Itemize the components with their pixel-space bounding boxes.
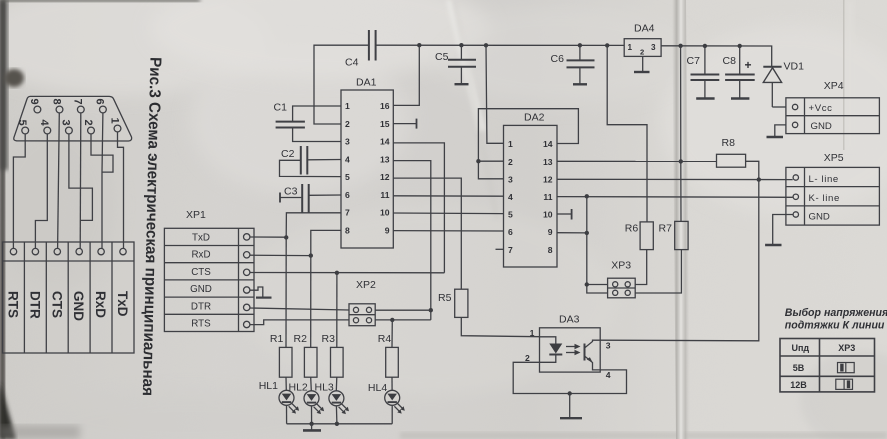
svg-text:C1: C1 <box>274 102 288 114</box>
svg-text:HL2: HL2 <box>289 381 308 393</box>
svg-text:+Vcc: +Vcc <box>809 103 833 114</box>
wire DA2 pin9 to XP3 net <box>557 231 589 235</box>
svg-text:XP3: XP3 <box>611 260 631 272</box>
DA3 bottom loop and ground <box>513 362 626 418</box>
terminal label RTS <box>6 291 21 318</box>
connector XP5 <box>786 152 880 225</box>
DB9 pin 1 <box>108 118 121 132</box>
svg-text:9: 9 <box>28 99 40 105</box>
DB9 pin 4 <box>38 120 51 134</box>
resistor R1 <box>270 237 292 377</box>
svg-text:HL3: HL3 <box>315 381 334 393</box>
svg-text:C2: C2 <box>281 148 295 160</box>
svg-text:XP4: XP4 <box>824 80 844 92</box>
svg-text:9: 9 <box>548 227 553 237</box>
svg-text:4: 4 <box>38 120 50 127</box>
wire DA1 pin8 <box>311 230 341 255</box>
svg-text:12: 12 <box>380 172 390 182</box>
DA2 pin10 stub <box>557 209 572 220</box>
svg-text:2: 2 <box>508 157 513 167</box>
svg-text:RxD: RxD <box>191 250 210 261</box>
svg-text:5В: 5В <box>793 363 805 373</box>
svg-text:7: 7 <box>72 99 84 105</box>
svg-text:1: 1 <box>530 328 535 338</box>
IC DA2 <box>504 112 558 268</box>
svg-text:R7: R7 <box>659 223 673 235</box>
resistor R3 <box>322 273 344 377</box>
capacitor C1 <box>274 102 342 142</box>
wire XP1 DTR to XP2 <box>250 308 349 310</box>
svg-text:TxD: TxD <box>115 291 130 317</box>
capacitor C6 <box>551 45 595 84</box>
resistor R8 <box>557 137 759 180</box>
note text <box>785 307 887 332</box>
svg-text:GND: GND <box>190 284 212 295</box>
svg-text:DTR: DTR <box>27 291 42 319</box>
XP5 GND ground <box>765 215 793 246</box>
svg-text:2: 2 <box>82 120 94 126</box>
capacitor C2 <box>280 146 342 177</box>
wire DB9 pin2 join <box>91 134 113 172</box>
terminal label DTR <box>27 291 42 319</box>
wire DA1 pin7 <box>286 213 341 238</box>
svg-text:DA2: DA2 <box>524 112 545 124</box>
wire XP1 RTS to XP2 <box>250 320 349 325</box>
svg-text:13: 13 <box>380 155 390 165</box>
wire DA1 pin16 riser <box>393 45 419 105</box>
terminal label CTS <box>49 291 64 318</box>
svg-text:1: 1 <box>628 43 633 52</box>
svg-text:3: 3 <box>345 137 350 147</box>
wire DA1 pin10 to DA2 pin5 <box>393 212 503 215</box>
svg-text:11: 11 <box>543 192 552 202</box>
svg-text:8: 8 <box>548 245 553 255</box>
svg-text:DA3: DA3 <box>559 314 580 326</box>
svg-text:XP3: XP3 <box>838 343 855 353</box>
capacitor C4 <box>345 30 376 69</box>
terminal label TxD <box>115 291 130 317</box>
DA2 pin7 stub <box>496 248 504 250</box>
svg-text:XP1: XP1 <box>186 209 206 221</box>
wire L-line node down to DA3 pin3 <box>600 180 759 341</box>
svg-text:Выбор напряжения: Выбор напряжения <box>785 307 887 319</box>
wire DA1 pin12 to R5 <box>393 178 461 289</box>
svg-text:DTR: DTR <box>191 301 211 312</box>
svg-text:R3: R3 <box>322 333 336 345</box>
DA2 loop pins 2 3 14 <box>476 109 578 179</box>
svg-text:C8: C8 <box>723 55 737 67</box>
svg-text:C7: C7 <box>687 55 701 67</box>
svg-text:12: 12 <box>543 174 553 184</box>
svg-text:8: 8 <box>345 226 350 236</box>
svg-text:4: 4 <box>345 155 350 165</box>
wire DA1 pin11 to DA2 pin4 <box>393 195 503 197</box>
svg-text:RTS: RTS <box>191 319 211 330</box>
wire DA1 pin2 to C4 <box>314 45 368 124</box>
wire XP1 RxD <box>250 253 313 257</box>
connector XP1 <box>164 209 254 332</box>
DB9 pin 6 <box>94 99 107 113</box>
jumper icon 12V <box>836 379 853 389</box>
svg-text:15: 15 <box>380 119 390 129</box>
wire XP2 bottom row <box>375 318 431 322</box>
svg-text:подтяжки К линии: подтяжки К линии <box>785 320 885 332</box>
voltage regulator DA4 <box>624 23 661 73</box>
svg-text:5: 5 <box>16 120 28 126</box>
svg-text:VD1: VD1 <box>784 61 805 73</box>
terminal label RxD <box>93 291 108 318</box>
DB9 pin 9 <box>28 99 41 113</box>
DA1 pin15 stub <box>393 119 416 129</box>
wire DB9 pin4 to terminal DTR <box>35 134 47 248</box>
svg-text:13: 13 <box>543 157 553 167</box>
svg-text:GND: GND <box>809 211 830 222</box>
svg-text:2: 2 <box>345 119 350 129</box>
resistor R2 <box>294 256 318 378</box>
resistor R6 <box>625 222 654 285</box>
svg-text:K- line: K- line <box>809 193 840 204</box>
DB9 pin 3 <box>60 120 73 134</box>
svg-text:7: 7 <box>508 245 513 255</box>
DB9 pin 7 <box>72 99 85 113</box>
svg-text:R6: R6 <box>625 223 639 235</box>
svg-text:C6: C6 <box>551 53 565 65</box>
selection table <box>780 339 875 392</box>
capacitor C8 polarized <box>723 46 755 99</box>
svg-text:R5: R5 <box>438 292 452 304</box>
capacitor C7 <box>687 46 720 99</box>
svg-text:2: 2 <box>640 48 644 57</box>
wire XP1 TxD <box>250 235 289 239</box>
svg-text:C4: C4 <box>345 57 359 69</box>
svg-text:DA1: DA1 <box>356 77 377 89</box>
svg-text:1: 1 <box>108 118 120 124</box>
svg-text:11: 11 <box>380 190 389 200</box>
resistor R4 <box>378 320 399 377</box>
svg-text:HL4: HL4 <box>368 382 387 394</box>
DB9 pin 8 <box>50 99 63 113</box>
svg-text:14: 14 <box>543 139 553 149</box>
svg-text:6: 6 <box>508 227 513 237</box>
svg-text:RTS: RTS <box>6 291 21 318</box>
svg-text:CTS: CTS <box>191 267 211 278</box>
wire DB9 pin1 to terminal TxD <box>118 132 124 248</box>
wire K-line node to XP3 <box>585 196 608 293</box>
optocoupler DA3 <box>525 314 611 381</box>
svg-text:Uпд: Uпд <box>792 343 810 353</box>
svg-text:+: + <box>745 58 752 72</box>
wire K-line <box>557 194 793 198</box>
DB9 pin 5 <box>16 120 29 134</box>
capacitor C3 <box>280 184 341 213</box>
jumper icon 5V <box>838 363 855 373</box>
svg-text:14: 14 <box>380 137 390 147</box>
svg-text:2: 2 <box>525 353 530 363</box>
svg-text:DA4: DA4 <box>634 23 655 35</box>
svg-text:5: 5 <box>508 210 513 220</box>
svg-text:L- line: L- line <box>809 174 839 185</box>
faint fold line right <box>843 0 845 150</box>
svg-text:R1: R1 <box>270 333 284 345</box>
svg-text:9: 9 <box>385 226 390 236</box>
diode VD1 <box>763 61 804 108</box>
svg-text:R2: R2 <box>294 333 308 345</box>
LED HL4 <box>368 377 405 424</box>
wire rail to R6 <box>607 45 647 222</box>
XP1 GND stub and ground <box>250 287 272 298</box>
wire DB9 pin6 to terminal RxD <box>101 113 104 248</box>
IC DA1 <box>341 77 393 249</box>
svg-text:C3: C3 <box>284 186 298 198</box>
DB9 pin 2 <box>82 120 95 134</box>
svg-text:12В: 12В <box>790 380 807 390</box>
terminal strip connector <box>3 242 135 353</box>
terminal label GND <box>71 291 86 321</box>
wire DA1 pin9 to DA2 pin6 <box>393 230 503 232</box>
svg-text:7: 7 <box>345 208 350 218</box>
LED HL1 <box>259 377 299 424</box>
svg-text:3: 3 <box>606 341 611 351</box>
svg-text:GND: GND <box>811 121 832 132</box>
svg-text:XP5: XP5 <box>824 152 844 164</box>
svg-text:10: 10 <box>380 208 390 218</box>
svg-text:TxD: TxD <box>192 233 210 244</box>
XP4 GND ground <box>767 125 786 137</box>
svg-text:CTS: CTS <box>49 291 64 318</box>
wire rail to DA2 pin1 <box>486 45 504 143</box>
svg-text:4: 4 <box>508 192 513 202</box>
svg-text:10: 10 <box>543 210 553 220</box>
svg-text:3: 3 <box>651 43 656 52</box>
svg-text:HL1: HL1 <box>259 380 278 392</box>
svg-text:5: 5 <box>345 172 350 182</box>
connector XP4 <box>786 80 880 134</box>
LED HL3 <box>315 377 350 424</box>
svg-text:C5: C5 <box>435 51 449 63</box>
wire DA1 pin14 net <box>393 143 444 273</box>
wire VD1 to XP4 <box>772 106 786 108</box>
svg-text:XP2: XP2 <box>356 279 376 291</box>
capacitor C5 <box>435 45 476 84</box>
wire DB9 pin5 to terminal RTS <box>13 134 25 248</box>
vertical paper crease <box>672 0 690 439</box>
jumper block XP3 <box>608 260 636 298</box>
svg-text:GND: GND <box>71 291 86 321</box>
svg-text:6: 6 <box>94 99 106 105</box>
resistor R7 <box>635 221 688 293</box>
wire DB9 pin7 to terminal GND <box>79 113 82 248</box>
svg-text:3: 3 <box>508 174 513 184</box>
wire DB9 pin3 join <box>69 134 93 221</box>
figure caption <box>139 57 164 396</box>
svg-text:R4: R4 <box>378 333 392 345</box>
wire DB9 pin8 to terminal CTS <box>58 113 60 248</box>
svg-text:8: 8 <box>50 99 62 105</box>
LED HL2 <box>289 377 325 424</box>
LED cathode rail and ground <box>287 422 393 431</box>
top supply rail <box>377 43 772 66</box>
svg-text:RxD: RxD <box>93 291 108 318</box>
top wrinkle streak <box>446 0 486 132</box>
wire DA1 pin13 to XP2 <box>393 161 433 320</box>
wire XP2 top row to DA1 pin13 net <box>375 309 431 311</box>
wire XP1 CTS to DA1 pin14 net <box>250 271 445 275</box>
wire L-line <box>557 177 793 181</box>
svg-text:3: 3 <box>60 120 72 126</box>
svg-text:1: 1 <box>345 101 350 111</box>
svg-text:6: 6 <box>345 190 350 200</box>
svg-text:1: 1 <box>508 139 513 149</box>
wire rail to R8 node and R7 <box>679 46 683 222</box>
jumper block XP2 <box>349 279 376 326</box>
svg-text:R8: R8 <box>722 137 736 149</box>
svg-text:4: 4 <box>606 370 611 380</box>
resistor R5 <box>438 289 540 337</box>
svg-text:16: 16 <box>380 101 390 111</box>
DB9 connector body <box>14 96 132 141</box>
paper shading patches <box>0 0 270 95</box>
